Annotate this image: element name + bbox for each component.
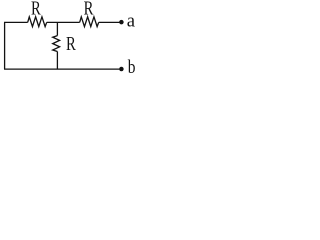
svg-text:a: a xyxy=(127,10,136,31)
svg-text:b: b xyxy=(128,55,136,76)
svg-text:R: R xyxy=(66,33,76,54)
svg-text:R: R xyxy=(84,0,94,19)
svg-text:R: R xyxy=(31,0,41,19)
